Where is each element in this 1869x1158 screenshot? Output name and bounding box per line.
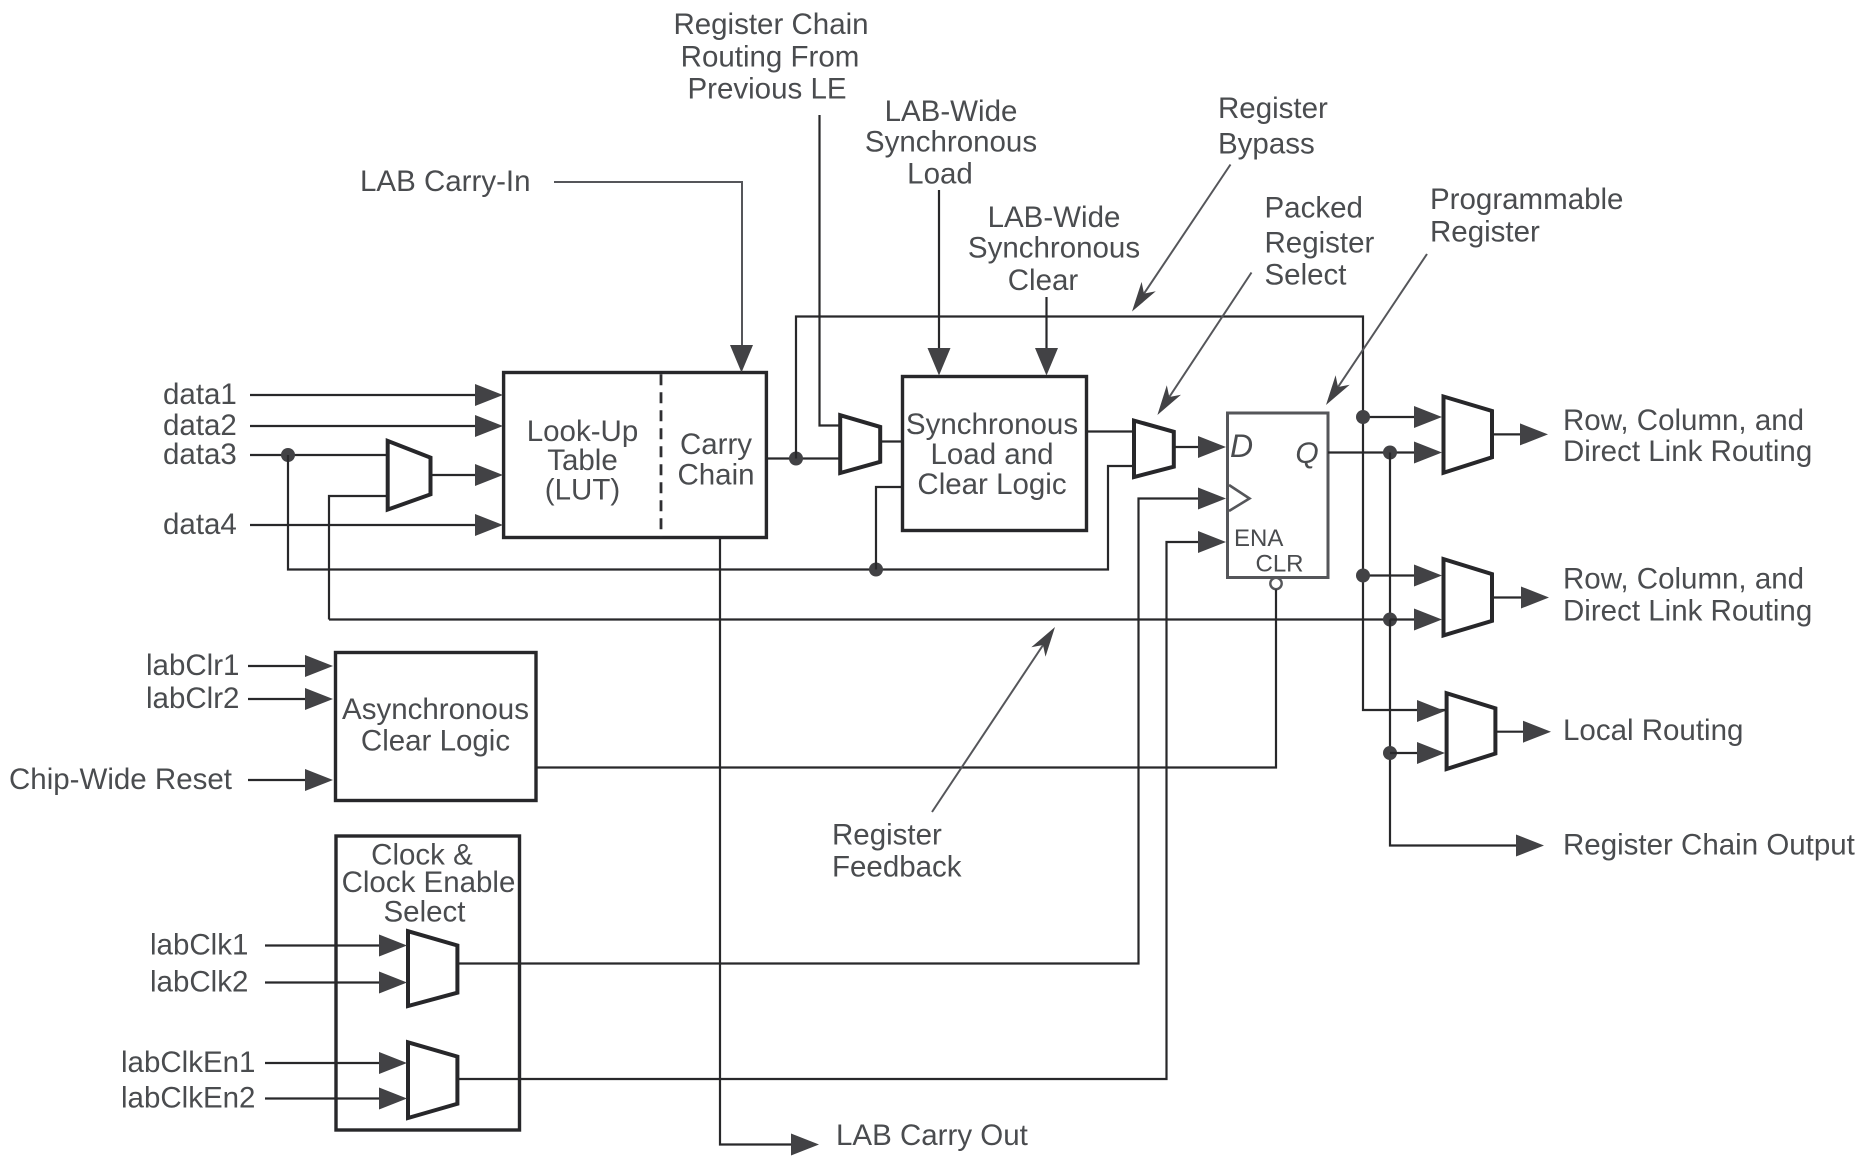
mux M1 data3 select bbox=[388, 441, 431, 510]
svg-text:data1: data1 bbox=[163, 378, 237, 411]
mux M6 local routing bbox=[1447, 693, 1496, 769]
svg-text:D: D bbox=[1230, 428, 1253, 464]
svg-text:Clear Logic: Clear Logic bbox=[361, 725, 510, 758]
svg-text:data3: data3 bbox=[163, 438, 237, 471]
arrow LUT input 3 bbox=[475, 464, 503, 486]
wire data3 to packed register line bbox=[288, 455, 1133, 570]
wire labClkEn1 bbox=[265, 1062, 381, 1064]
label Synchronous Load and Clear Logic bbox=[906, 408, 1078, 501]
svg-text:Select: Select bbox=[384, 896, 466, 929]
wire register bypass bbox=[796, 317, 1445, 711]
wire clock enable to ENA bbox=[457, 542, 1200, 1079]
svg-text:Register: Register bbox=[1430, 216, 1540, 249]
pointer packed register select bbox=[1164, 273, 1252, 406]
wire mux M1 output to LUT bbox=[430, 474, 480, 476]
svg-text:Clock Enable: Clock Enable bbox=[342, 866, 516, 899]
svg-text:labClkEn1: labClkEn1 bbox=[121, 1046, 255, 1079]
label Packed Register Select bbox=[1265, 192, 1375, 292]
svg-text:Clear Logic: Clear Logic bbox=[917, 468, 1066, 501]
node data3 junction bbox=[281, 448, 295, 462]
label Register Bypass bbox=[1218, 92, 1328, 161]
clock chevron bbox=[1229, 485, 1250, 511]
svg-text:labClk1: labClk1 bbox=[150, 929, 248, 962]
arrow labClr1 bbox=[305, 655, 333, 677]
dashed divider LUT/Carry bbox=[660, 374, 663, 537]
wire branch to mux M5 top bbox=[1363, 574, 1416, 576]
svg-text:Bypass: Bypass bbox=[1218, 128, 1315, 161]
wire clock to register bbox=[457, 499, 1200, 964]
mux M7 clock select bbox=[408, 931, 457, 1006]
label Row Column top bbox=[1563, 404, 1812, 468]
node feedback junction bbox=[1383, 613, 1397, 627]
arrow sync load down bbox=[928, 348, 951, 376]
box U1 Look-Up Table / Carry Chain bbox=[504, 373, 767, 538]
flip-flop U5 programmable register bbox=[1228, 413, 1329, 578]
svg-text:Register: Register bbox=[1218, 92, 1328, 125]
svg-text:data4: data4 bbox=[163, 508, 237, 541]
wire chip-wide reset bbox=[248, 779, 307, 781]
label Programmable Register bbox=[1430, 183, 1623, 249]
svg-text:labClr1: labClr1 bbox=[146, 649, 239, 682]
label Row Column bottom bbox=[1563, 563, 1812, 628]
wire mux M3 output to D bbox=[1174, 446, 1200, 448]
arrow register chain output bbox=[1516, 835, 1544, 857]
label LAB-Wide Synchronous Clear bbox=[968, 201, 1140, 297]
svg-text:Packed: Packed bbox=[1265, 192, 1363, 225]
svg-text:Programmable: Programmable bbox=[1430, 183, 1623, 216]
arrow mux M5 top input bbox=[1414, 565, 1442, 587]
mux M2 sync load input select bbox=[840, 415, 880, 473]
svg-text:LAB Carry-In: LAB Carry-In bbox=[360, 165, 531, 198]
wire Q output bbox=[1328, 451, 1416, 453]
wire sync feedback into U2 bbox=[876, 487, 902, 570]
label LAB-Wide Synchronous Load bbox=[865, 95, 1037, 191]
wire bypass branch to mux M4 bbox=[1363, 416, 1416, 418]
svg-text:Direct Link Routing: Direct Link Routing bbox=[1563, 435, 1812, 468]
wire sync load bbox=[938, 190, 940, 350]
arrow chip-wide reset bbox=[305, 769, 333, 791]
wire async clear to CLR bbox=[537, 590, 1276, 768]
box U3 Asynchronous Clear Logic bbox=[336, 653, 537, 801]
arrow mux M5 bottom input bbox=[1414, 609, 1442, 631]
svg-text:Q: Q bbox=[1295, 437, 1318, 470]
svg-text:Asynchronous: Asynchronous bbox=[342, 693, 529, 726]
CLR bubble bbox=[1270, 578, 1281, 589]
svg-text:Clear: Clear bbox=[1008, 264, 1079, 297]
arrow labClk2 bbox=[379, 972, 407, 994]
arrow D input bbox=[1198, 436, 1226, 458]
wire labClk2 bbox=[265, 981, 381, 983]
svg-text:(LUT): (LUT) bbox=[545, 474, 620, 507]
wire mux M6 output bbox=[1495, 731, 1525, 733]
svg-text:labClr2: labClr2 bbox=[146, 682, 239, 715]
wire feedback branch to mux M5 bbox=[1390, 618, 1416, 620]
svg-text:Register Chain: Register Chain bbox=[673, 8, 868, 41]
wire sync clear bbox=[1045, 297, 1047, 350]
svg-text:Feedback: Feedback bbox=[832, 851, 962, 884]
wire labClk1 bbox=[265, 944, 381, 946]
svg-text:LAB Carry Out: LAB Carry Out bbox=[836, 1119, 1028, 1152]
arrow LAB carry out bbox=[791, 1134, 819, 1156]
svg-text:Synchronous: Synchronous bbox=[865, 126, 1037, 159]
svg-text:Synchronous: Synchronous bbox=[906, 408, 1078, 441]
svg-text:Chain: Chain bbox=[677, 459, 754, 492]
arrow row/column bottom output bbox=[1521, 587, 1549, 609]
pointer register bypass bbox=[1139, 165, 1231, 302]
svg-text:ENA: ENA bbox=[1234, 525, 1283, 552]
svg-text:CLR: CLR bbox=[1256, 551, 1304, 578]
wire mux M2 output bbox=[880, 440, 902, 442]
arrow data2 bbox=[475, 415, 503, 437]
wire mux M5 output bbox=[1492, 596, 1523, 598]
wire register feedback bbox=[329, 453, 1390, 620]
arrow data4 bbox=[475, 514, 503, 536]
svg-text:LAB-Wide: LAB-Wide bbox=[885, 95, 1018, 128]
arrow row/column top output bbox=[1520, 423, 1548, 445]
svg-text:labClkEn2: labClkEn2 bbox=[121, 1082, 255, 1115]
mux M8 clock enable select bbox=[408, 1042, 457, 1118]
node packed junction bbox=[869, 563, 883, 577]
svg-text:Direct Link Routing: Direct Link Routing bbox=[1563, 595, 1812, 628]
svg-text:Carry: Carry bbox=[680, 428, 752, 461]
wire branch to mux M6 bottom bbox=[1390, 752, 1419, 754]
label Carry Chain bbox=[677, 428, 754, 492]
mux M4 output row/column top bbox=[1444, 397, 1493, 473]
wire data1 bbox=[250, 394, 480, 396]
svg-text:Routing From: Routing From bbox=[681, 41, 860, 74]
node mux M6 bottom junction bbox=[1383, 746, 1397, 760]
arrow data1 bbox=[475, 384, 503, 406]
svg-text:Register: Register bbox=[832, 819, 942, 852]
arrow labClr2 bbox=[305, 688, 333, 710]
svg-text:Local Routing: Local Routing bbox=[1563, 714, 1743, 747]
label Register Feedback bbox=[832, 819, 962, 884]
node bypass/mux4 junction bbox=[1356, 410, 1370, 424]
wire U2 output to mux M3 bbox=[1087, 430, 1134, 432]
node Q junction bbox=[1383, 446, 1397, 460]
node bypass/mux5 junction bbox=[1356, 569, 1370, 583]
svg-text:Load and: Load and bbox=[930, 438, 1053, 471]
svg-text:Row, Column, and: Row, Column, and bbox=[1563, 404, 1804, 437]
svg-text:LAB-Wide: LAB-Wide bbox=[988, 201, 1121, 234]
wire LAB carry out bbox=[720, 539, 793, 1145]
arrow sync clear down bbox=[1035, 348, 1058, 376]
arrow clock input bbox=[1198, 488, 1226, 510]
arrow mux M6 bottom input bbox=[1417, 742, 1445, 764]
arrow labClkEn1 bbox=[379, 1052, 407, 1074]
pointer programmable register bbox=[1333, 254, 1427, 395]
arrow labClk1 bbox=[379, 935, 407, 957]
wire labClr1 bbox=[248, 665, 307, 667]
label Register Chain Routing From Previous LE bbox=[673, 8, 868, 106]
wire data3 bbox=[250, 454, 387, 456]
arrow local routing output bbox=[1523, 721, 1551, 743]
wire mux M4 output bbox=[1492, 433, 1522, 435]
svg-text:Select: Select bbox=[1265, 259, 1347, 292]
wire register chain routing bbox=[820, 115, 841, 426]
box U2 Synchronous Load and Clear Logic bbox=[903, 377, 1087, 531]
pointer register feedback bbox=[932, 637, 1048, 812]
wire carry chain output bbox=[767, 457, 840, 459]
mux M5 output row/column bottom bbox=[1444, 559, 1493, 635]
arrow ENA input bbox=[1198, 531, 1226, 553]
svg-text:Previous LE: Previous LE bbox=[687, 73, 846, 106]
svg-text:labClk2: labClk2 bbox=[150, 966, 248, 999]
wire data4 bbox=[250, 524, 480, 526]
node carry out junction bbox=[789, 452, 803, 466]
svg-text:Chip-Wide Reset: Chip-Wide Reset bbox=[9, 763, 232, 796]
svg-text:Table: Table bbox=[547, 444, 618, 477]
arrow labClkEn2 bbox=[379, 1088, 407, 1110]
arrow LAB carry-in down bbox=[730, 345, 753, 373]
wire LAB carry-in leader bbox=[554, 182, 742, 348]
wire labClr2 bbox=[248, 698, 307, 700]
wire data2 bbox=[250, 425, 480, 427]
svg-text:Register: Register bbox=[1265, 227, 1375, 260]
svg-text:Load: Load bbox=[907, 158, 973, 191]
wire labClkEn2 bbox=[265, 1097, 381, 1099]
label Asynchronous Clear Logic bbox=[342, 693, 529, 758]
label Look-Up Table (LUT) bbox=[527, 415, 639, 507]
svg-text:Synchronous: Synchronous bbox=[968, 232, 1140, 265]
box U4 Clock & Clock Enable Select bbox=[336, 836, 520, 1130]
arrow mux M6 top input bbox=[1417, 700, 1445, 722]
svg-text:Row, Column, and: Row, Column, and bbox=[1563, 563, 1804, 596]
label Clock & Clock Enable Select bbox=[342, 839, 516, 929]
arrow mux M4 top input bbox=[1414, 406, 1442, 428]
mux M3 packed register select bbox=[1134, 421, 1174, 477]
svg-text:Register Chain Output: Register Chain Output bbox=[1563, 829, 1855, 862]
wire register feedback riser to mux M1 bbox=[329, 496, 388, 620]
arrow mux M4 bottom input bbox=[1414, 442, 1442, 464]
wire Q down to register chain output bbox=[1390, 620, 1518, 846]
